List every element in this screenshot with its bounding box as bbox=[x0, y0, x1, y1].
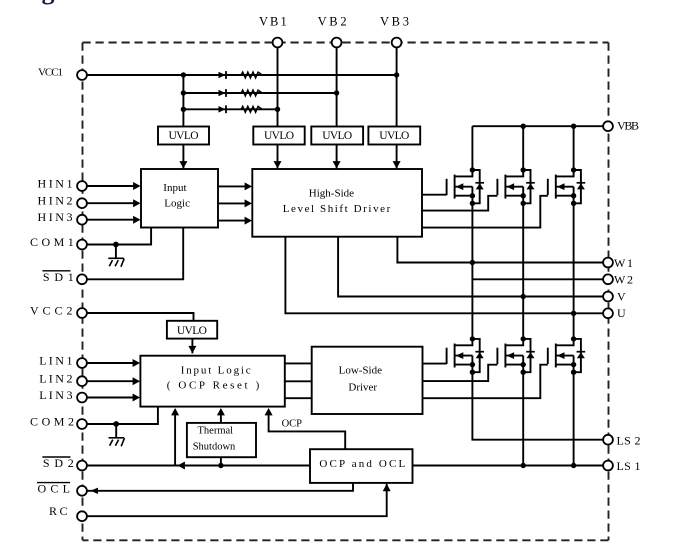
svg-text:L I N 3: L I N 3 bbox=[39, 388, 72, 402]
svg-text:L I N 1: L I N 1 bbox=[39, 354, 72, 368]
transistor Q1 (high-side W) with body diode bbox=[447, 167, 484, 206]
svg-text:UVLO: UVLO bbox=[177, 325, 207, 337]
terminal VCC1 bbox=[77, 70, 87, 80]
svg-text:W1: W1 bbox=[614, 256, 633, 270]
wire to Low-Side 1 bbox=[285, 362, 312, 364]
block UVLO 3 bbox=[311, 127, 363, 145]
arrow into High-Side 3 bbox=[245, 217, 252, 225]
wire Input Logic to High-Side 2 bbox=[218, 202, 251, 204]
IC package boundary (dashed) bbox=[83, 43, 609, 541]
svg-text:VBB: VBB bbox=[617, 119, 639, 133]
node VCC1 branch bbox=[181, 72, 186, 77]
terminal W1 bbox=[603, 258, 613, 268]
terminal VB1 bbox=[273, 38, 283, 48]
svg-text:Input: Input bbox=[163, 182, 186, 194]
terminal LS1 bbox=[603, 461, 613, 471]
arrow HIN2 into Input Logic bbox=[133, 199, 140, 207]
node COM2 ground tap bbox=[113, 421, 119, 427]
wire RC bbox=[82, 484, 387, 516]
arrow HIN1 into Input Logic bbox=[133, 182, 140, 190]
svg-text:UVLO: UVLO bbox=[322, 130, 352, 142]
wire Thermal Shutdown to SD2 line bbox=[220, 457, 222, 465]
resistor R2 bbox=[241, 90, 262, 96]
wire UVLO5 to Input Logic (OCP Reset) bbox=[191, 339, 193, 354]
wire Low-Side gate 2 bbox=[423, 365, 498, 381]
wire High-Side gate 2 bbox=[422, 196, 497, 211]
svg-text:V B 3: V B 3 bbox=[380, 14, 409, 28]
svg-text:VCC1: VCC1 bbox=[38, 67, 63, 79]
arrow UVLO5 into Input Logic (OCP Reset) bbox=[188, 346, 196, 354]
wire VCC1 branch vertical bbox=[182, 75, 184, 127]
block High-Side Level Shift Driver bbox=[252, 169, 422, 237]
svg-text:V B 2: V B 2 bbox=[318, 14, 347, 28]
svg-text:C O M 2: C O M 2 bbox=[30, 415, 74, 429]
node V-column bbox=[521, 294, 526, 299]
wire phase column W bbox=[471, 203, 473, 339]
arrow OCL toward terminal bbox=[91, 488, 99, 494]
svg-text:V C C 2: V C C 2 bbox=[30, 304, 73, 318]
block UVLO 4 bbox=[368, 127, 420, 145]
arrow on SD2 line pointing left bbox=[178, 462, 185, 470]
wire OCL bbox=[82, 483, 353, 491]
svg-text:S D 1: S D 1 bbox=[43, 270, 74, 284]
diode D2 bbox=[219, 90, 226, 97]
terminal W2 bbox=[603, 274, 613, 284]
svg-text:UVLO: UVLO bbox=[264, 130, 294, 142]
wire Low-Side gate 3 bbox=[423, 365, 548, 399]
wire U sense bbox=[285, 237, 603, 314]
wire Q1 drain drop bbox=[471, 126, 473, 170]
svg-text:Input Logic: Input Logic bbox=[181, 365, 251, 377]
block Input Logic (high side) bbox=[141, 169, 218, 228]
transistor Q2 (high-side V) with body diode bbox=[497, 167, 534, 206]
arrow VB3 into High-Side box bbox=[393, 161, 401, 168]
wire OCP signal bbox=[269, 410, 346, 449]
wire Input Logic to High-Side 3 bbox=[218, 220, 251, 222]
svg-text:OCP and OCL: OCP and OCL bbox=[319, 458, 405, 470]
block Thermal Shutdown bbox=[187, 423, 256, 457]
arrow LIN1 into box bbox=[133, 359, 140, 367]
svg-text:Shutdown: Shutdown bbox=[193, 442, 236, 453]
wire to Low-Side 3 bbox=[285, 397, 312, 399]
block UVLO 2 bbox=[253, 127, 304, 145]
block UVLO 1 bbox=[158, 127, 209, 145]
wire VCC1 rail bbox=[82, 74, 397, 76]
svg-text:LS 2: LS 2 bbox=[617, 433, 641, 447]
label SD2 with overline bbox=[42, 456, 73, 470]
svg-text:g: g bbox=[42, 0, 55, 5]
label SD1 with overline bbox=[42, 270, 73, 284]
transistor Q4 (low-side W) with body diode bbox=[447, 336, 484, 375]
arrow SD2 into Input Logic (OCP Reset) bbox=[171, 408, 179, 415]
diode D1 bbox=[219, 72, 226, 79]
wire UVLO1 to Input Logic bbox=[182, 145, 184, 169]
transistor Q5 (low-side V) with body diode bbox=[497, 336, 534, 375]
node Thermal Shutdown-SD2 bbox=[218, 463, 223, 468]
svg-text:Logic: Logic bbox=[164, 198, 190, 210]
svg-text:C O M 1: C O M 1 bbox=[30, 235, 74, 249]
terminal COM2 bbox=[77, 419, 87, 429]
svg-text:LS 1: LS 1 bbox=[617, 459, 641, 473]
arrow HIN3 into Input Logic bbox=[133, 216, 140, 224]
block OCP and OCL bbox=[310, 449, 413, 483]
wire COM1 bbox=[82, 228, 151, 245]
terminal LS2 bbox=[603, 435, 613, 445]
arrow OCP into Input Logic (OCP Reset) bbox=[265, 408, 273, 415]
wire VB1 column bbox=[277, 43, 279, 169]
svg-text:Low-Side: Low-Side bbox=[339, 365, 383, 377]
svg-text:Driver: Driver bbox=[348, 382, 377, 394]
svg-text:S D 2: S D 2 bbox=[43, 456, 74, 470]
node U-column bbox=[571, 311, 576, 316]
svg-text:H I N 2: H I N 2 bbox=[38, 194, 73, 208]
terminal V bbox=[603, 292, 613, 302]
terminal LIN2 bbox=[77, 376, 87, 386]
block Low-Side Driver bbox=[312, 347, 423, 414]
svg-text:UVLO: UVLO bbox=[169, 130, 199, 142]
ground for COM2 bbox=[109, 424, 125, 446]
arrow RC into OCP and OCL bbox=[383, 484, 391, 491]
label OCL with overline bbox=[37, 481, 70, 495]
terminal COM1 bbox=[77, 240, 87, 250]
arrow LIN3 into box bbox=[133, 394, 140, 402]
wire COM2 bbox=[82, 407, 158, 424]
wire HIN3 bbox=[82, 219, 139, 221]
partial heading glyph (bottom of letter g, cut off at top edge) bbox=[42, 0, 55, 5]
svg-text:High-Side: High-Side bbox=[309, 187, 354, 199]
wire LS1 line bbox=[413, 465, 604, 467]
svg-text:L I N 2: L I N 2 bbox=[39, 372, 72, 386]
arrow LIN2 into box bbox=[133, 377, 140, 385]
wire VB3 column bbox=[396, 43, 398, 169]
terminal OCL bbox=[77, 486, 87, 496]
node row3-VB1 bbox=[275, 107, 280, 112]
wire phase column V bbox=[522, 203, 524, 339]
wire SD2 vertical into Input Logic (OCP Reset) bbox=[174, 410, 176, 466]
terminal HIN1 bbox=[77, 181, 87, 191]
wire V sense bbox=[338, 237, 604, 297]
svg-text:Level Shift Driver: Level Shift Driver bbox=[283, 203, 391, 215]
arrow into High-Side 2 bbox=[245, 199, 252, 207]
wire LIN2 bbox=[82, 380, 139, 382]
arrow VB2 into High-Side box bbox=[333, 161, 341, 168]
terminal HIN3 bbox=[77, 215, 87, 225]
block Input Logic (OCP Reset) bbox=[140, 356, 284, 407]
terminal LIN3 bbox=[77, 393, 87, 403]
svg-text:OCP: OCP bbox=[282, 419, 303, 430]
terminal SD1 bbox=[77, 274, 87, 284]
wire Q2 drain drop bbox=[522, 126, 524, 170]
wire phase column U bbox=[573, 203, 575, 339]
wire Q3 drain drop bbox=[573, 126, 575, 170]
node row2-VB2 bbox=[334, 90, 339, 95]
terminal U bbox=[603, 308, 613, 318]
arrow VB1 into High-Side box bbox=[274, 161, 282, 168]
node VBB-Q3 bbox=[571, 124, 576, 129]
wire SD1 bbox=[82, 228, 183, 280]
node LS1-Q5 bbox=[521, 463, 526, 468]
wire LIN3 bbox=[82, 397, 139, 399]
svg-text:W2: W2 bbox=[614, 272, 633, 286]
wire W2 bbox=[472, 278, 603, 280]
node COM1 ground tap bbox=[113, 242, 119, 248]
wire Input Logic to High-Side 1 bbox=[218, 185, 251, 187]
wire bootstrap row 2 bbox=[183, 92, 336, 94]
resistor R1 bbox=[241, 72, 262, 78]
wire VCC2 bbox=[82, 313, 194, 321]
wire W1 sense bbox=[397, 237, 603, 263]
terminal VB2 bbox=[332, 38, 342, 48]
diode D3 bbox=[219, 106, 226, 113]
node row2 branch bbox=[181, 90, 186, 95]
terminal VCC2 bbox=[77, 308, 87, 318]
svg-text:U: U bbox=[617, 306, 626, 320]
wire to Low-Side 2 bbox=[285, 380, 312, 382]
wire Thermal Shutdown to Input Logic bbox=[220, 410, 222, 423]
node W1-column bbox=[470, 260, 475, 265]
transistor Q6 (low-side U) with body diode bbox=[548, 336, 585, 375]
svg-text:OCL: OCL bbox=[38, 481, 71, 495]
terminal VBB bbox=[603, 121, 613, 131]
svg-text:UVLO: UVLO bbox=[379, 130, 409, 142]
svg-text:H I N 3: H I N 3 bbox=[38, 210, 73, 224]
wire High-Side gate 1 bbox=[422, 194, 447, 196]
node row1-VB3 bbox=[394, 72, 399, 77]
wire HIN1 bbox=[82, 185, 139, 187]
node VBB-Q2 bbox=[521, 124, 526, 129]
svg-text:H I N 1: H I N 1 bbox=[38, 177, 73, 191]
terminal LIN1 bbox=[77, 358, 87, 368]
node row3 branch bbox=[181, 107, 186, 112]
svg-text:V B 1: V B 1 bbox=[259, 14, 287, 28]
terminal SD2 bbox=[77, 461, 87, 471]
arrow Thermal Shutdown into Input Logic bbox=[217, 408, 225, 415]
node LS1-Q6 bbox=[571, 463, 576, 468]
ground for COM1 bbox=[108, 245, 124, 267]
terminal VB3 bbox=[392, 38, 402, 48]
wire Q4 source to LS2 bbox=[472, 372, 603, 440]
resistor R3 bbox=[241, 106, 262, 112]
wire bootstrap row 3 bbox=[183, 108, 277, 110]
wire Q6 source to LS1 bbox=[573, 372, 575, 465]
arrow UVLO1 into Input Logic bbox=[179, 161, 187, 168]
wire Q5 source to LS1 bbox=[522, 372, 524, 465]
transistor Q3 (high-side U) with body diode bbox=[548, 167, 585, 206]
wire LIN1 bbox=[82, 362, 139, 364]
arrow into High-Side 1 bbox=[245, 182, 252, 190]
terminal RC bbox=[77, 511, 87, 521]
wire VBB rail bbox=[472, 125, 603, 127]
wire Low-Side gate 1 bbox=[423, 363, 447, 365]
svg-text:( OCP Reset ): ( OCP Reset ) bbox=[167, 380, 260, 392]
wire SD2 line bbox=[82, 465, 310, 467]
wire HIN2 bbox=[82, 202, 139, 204]
svg-text:V: V bbox=[617, 290, 626, 304]
terminal HIN2 bbox=[77, 198, 87, 208]
wire VB2 column bbox=[336, 43, 338, 169]
wire High-Side gate 3 bbox=[422, 196, 548, 228]
block UVLO 5 (VCC2) bbox=[167, 321, 217, 339]
svg-text:Thermal: Thermal bbox=[198, 426, 234, 437]
